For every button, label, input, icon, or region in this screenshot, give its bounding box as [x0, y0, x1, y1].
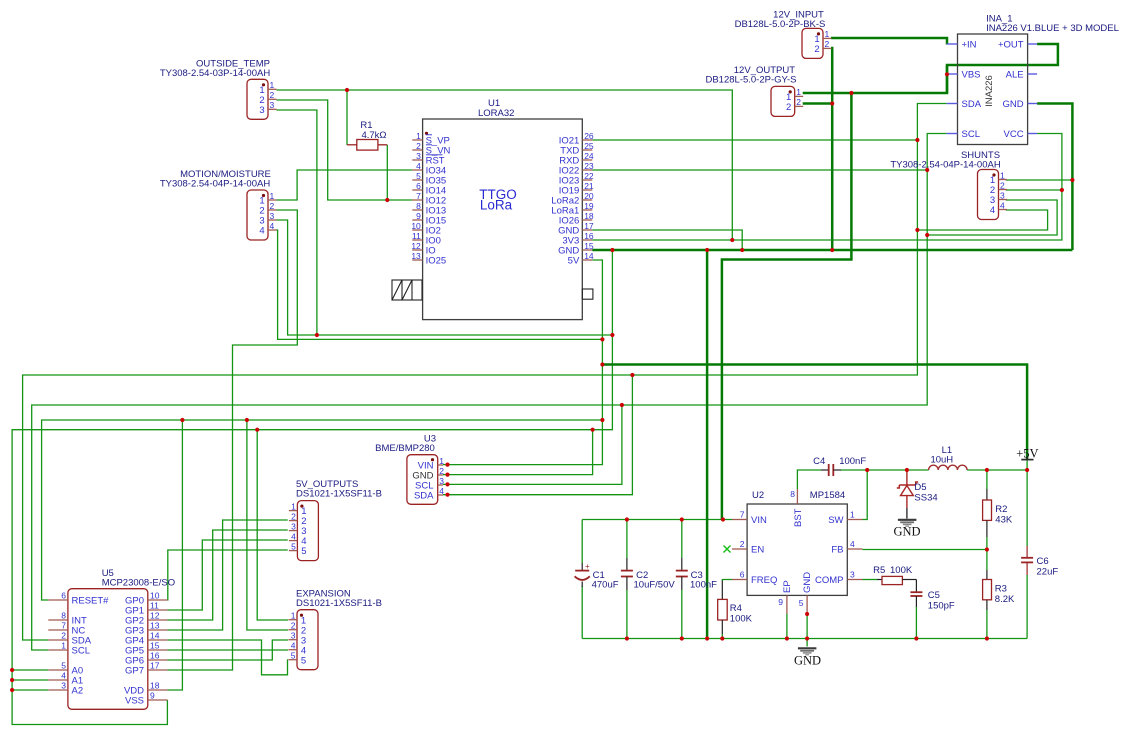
svg-text:VBS: VBS	[962, 70, 981, 81]
svg-text:22: 22	[584, 171, 594, 181]
svg-text:10: 10	[150, 591, 160, 601]
node U3 pin3	[445, 482, 449, 486]
svg-text:5: 5	[416, 171, 421, 181]
svg-text:RESET#: RESET#	[72, 596, 110, 607]
wire COMP to R5	[863, 579, 878, 581]
svg-text:C4: C4	[813, 456, 825, 467]
svg-text:SCL: SCL	[72, 646, 90, 657]
svg-text:BME/BMP280: BME/BMP280	[375, 443, 435, 454]
svg-text:3: 3	[270, 211, 275, 221]
wire U5 GP4 to EXPANSION pin5	[168, 640, 289, 675]
svg-text:C6: C6	[1037, 556, 1049, 567]
svg-text:GND: GND	[794, 654, 821, 668]
capacitor C5 150pF	[910, 580, 955, 612]
svg-text:5: 5	[291, 541, 296, 551]
node U3 pin1	[445, 463, 449, 467]
node H7-V5	[591, 428, 595, 432]
svg-text:1: 1	[1000, 170, 1005, 180]
svg-text:VSS: VSS	[125, 696, 144, 707]
svg-text:10uF/50V: 10uF/50V	[634, 580, 676, 591]
wire SCL net INA to U5 SCL	[32, 134, 947, 651]
svg-text:2: 2	[796, 97, 801, 107]
capacitor C4 100nF	[813, 456, 866, 476]
svg-text:FB: FB	[831, 545, 843, 556]
node H6-V1	[600, 418, 604, 422]
svg-text:2: 2	[291, 621, 296, 631]
wire GND down to rail	[706, 250, 709, 639]
wire R2 bottom lead	[986, 537, 988, 550]
svg-text:5: 5	[799, 598, 804, 608]
node OT1-R1	[345, 88, 349, 92]
wire 12V_INPUT pin1 to INA +IN	[831, 38, 947, 45]
svg-text:470uF: 470uF	[592, 580, 619, 591]
node C2-VIN	[625, 517, 629, 521]
wire L1 to 5V node	[967, 469, 1027, 471]
wire SDA net INA to U5 SDA	[23, 104, 947, 641]
node EXP2-H6	[245, 418, 249, 422]
wire C5 bottom to rail	[915, 607, 917, 639]
svg-text:5: 5	[291, 651, 296, 661]
node GND17-row	[740, 248, 744, 252]
svg-text:19: 19	[584, 201, 594, 211]
wire OUTSIDE_TEMP pin1 to 3V3 net	[277, 90, 733, 240]
svg-text:22uF: 22uF	[1037, 567, 1059, 578]
wire INA GND down	[1037, 104, 1072, 251]
node 5V-L1	[1025, 468, 1029, 472]
svg-text:3: 3	[291, 631, 296, 641]
wire SW node to L1	[867, 469, 928, 471]
svg-text:3: 3	[61, 681, 66, 691]
svg-text:2: 2	[416, 141, 421, 151]
wire GND net U1 pin15 down left to U5 A0-A2 VSS	[12, 250, 612, 725]
wire EXPANSION pin2 to 5V net	[247, 420, 288, 630]
resistor R1 4.7k	[347, 120, 387, 150]
svg-text:2: 2	[61, 631, 66, 641]
svg-text:2: 2	[439, 466, 444, 476]
svg-text:4: 4	[291, 641, 296, 651]
wire R1 top branch	[346, 90, 348, 145]
wire U1 IO22 to SCL net	[592, 169, 927, 171]
svg-text:SCL: SCL	[962, 129, 980, 140]
svg-text:14: 14	[150, 631, 160, 641]
svg-text:18: 18	[584, 211, 594, 221]
wire SHUNTS pin4 to SDA	[917, 210, 1047, 230]
wire C2 top lead	[626, 520, 628, 559]
svg-text:4: 4	[291, 531, 296, 541]
svg-text:GND: GND	[802, 572, 813, 593]
svg-text:6: 6	[740, 570, 745, 580]
svg-text:1: 1	[825, 29, 830, 39]
wire 3V3 U1 pin16 to INA VCC	[592, 134, 1062, 241]
svg-text:12: 12	[411, 241, 421, 251]
svg-text:1: 1	[291, 611, 296, 621]
svg-text:GP7: GP7	[125, 666, 144, 677]
svg-text:FREQ: FREQ	[751, 575, 777, 586]
wire BST to C4	[797, 470, 821, 489]
svg-text:R5: R5	[873, 565, 885, 576]
node VIN branch	[849, 91, 853, 95]
node IO22-SCL	[925, 168, 929, 172]
wire R4 bottom to rail	[721, 634, 723, 639]
svg-text:1: 1	[796, 87, 801, 97]
svg-text:DS1021-1X5SF11-B: DS1021-1X5SF11-B	[296, 598, 382, 609]
svg-text:15: 15	[150, 641, 160, 651]
svg-text:COMP: COMP	[815, 575, 844, 586]
node D5-L1	[905, 468, 909, 472]
wire GND rail	[582, 638, 1027, 640]
resistor R3 8.2K	[983, 570, 1015, 610]
svg-text:15: 15	[584, 241, 594, 251]
svg-text:3: 3	[259, 105, 264, 116]
wire U5 GP0 to 5V_OUTPUTS pin5	[168, 550, 288, 600]
wire C6 top from +5V	[1026, 461, 1028, 547]
wire U5 A0	[12, 669, 48, 671]
node H2-V1	[600, 337, 604, 341]
svg-text:17: 17	[150, 661, 160, 671]
wire C2 bottom lead	[626, 590, 628, 639]
svg-text:11: 11	[150, 601, 159, 611]
svg-text:4: 4	[850, 539, 855, 549]
svg-text:7: 7	[416, 191, 421, 201]
node C3-VIN	[680, 517, 684, 521]
svg-text:IO25: IO25	[426, 256, 447, 267]
svg-text:6: 6	[61, 591, 66, 601]
wire C3 bottom lead	[681, 590, 683, 639]
svg-text:TY308-2.54-04P-14-00AH: TY308-2.54-04P-14-00AH	[890, 160, 1001, 171]
node SHUNTS2-VCC	[1060, 188, 1064, 192]
svg-text:21: 21	[584, 181, 594, 191]
svg-text:9: 9	[150, 691, 155, 701]
svg-text:12: 12	[150, 611, 160, 621]
svg-text:100K: 100K	[890, 565, 913, 576]
resistor R4 100K	[718, 581, 753, 635]
svg-text:100K: 100K	[730, 614, 753, 625]
node OT1-3V3	[730, 238, 734, 242]
wire SCL branch to U3 SCL	[443, 405, 622, 484]
svg-text:1: 1	[850, 510, 855, 520]
wire MOTION pin1 to U1 IO34	[277, 170, 413, 200]
svg-text:DS1021-1X5SF11-B: DS1021-1X5SF11-B	[296, 489, 382, 500]
svg-text:+: +	[585, 562, 590, 571]
svg-text:1: 1	[61, 641, 66, 651]
svg-text:1: 1	[291, 501, 296, 511]
svg-text:2: 2	[270, 90, 275, 100]
wire MOTION pin3 to GND H1	[277, 220, 613, 335]
IC U2 MP1584	[732, 489, 863, 614]
node C2-rail	[625, 636, 629, 640]
svg-text:13: 13	[150, 621, 160, 631]
svg-text:7: 7	[61, 621, 66, 631]
svg-text:5: 5	[61, 661, 66, 671]
wire U2 GND pin to ground	[806, 614, 808, 647]
node A2	[10, 688, 14, 692]
connector EXPANSION DS1021-1X5SF11-B	[289, 610, 319, 670]
svg-text:ALE: ALE	[1006, 70, 1024, 81]
node SHUNTS1-GND	[1070, 178, 1074, 182]
svg-text:1: 1	[270, 80, 275, 90]
svg-text:VCC: VCC	[1004, 129, 1024, 140]
svg-text:SDA: SDA	[962, 99, 982, 110]
wire EXPANSION pin1 to GND net	[257, 430, 288, 620]
svg-text:C5: C5	[928, 590, 940, 601]
wire 12V_INPUT pin2 down to GND row	[831, 48, 832, 250]
svg-text:1: 1	[439, 456, 444, 466]
svg-text:+5V: +5V	[1016, 447, 1038, 461]
node GND5-rail	[805, 636, 809, 640]
node GND-V2	[610, 248, 614, 252]
wire 5V run to +5V symbol	[602, 365, 1027, 460]
svg-text:100nF: 100nF	[839, 456, 866, 467]
wire SHUNTS pin1 to GND	[1006, 179, 1073, 181]
wire U5 GP6 to EXPANSION pin3	[168, 640, 289, 660]
svg-text:8: 8	[790, 489, 795, 499]
no-connect X on U2 EN pin	[724, 546, 731, 553]
svg-text:2: 2	[825, 39, 830, 49]
wire MOTION pin2 to U5 GP7	[168, 210, 298, 670]
svg-text:8.2K: 8.2K	[995, 594, 1015, 605]
svg-text:LORA32: LORA32	[478, 108, 514, 119]
svg-text:INA226 V1.BLUE + 3D MODEL: INA226 V1.BLUE + 3D MODEL	[986, 23, 1119, 34]
wire R2 top lead	[986, 470, 988, 489]
svg-text:1: 1	[416, 131, 421, 141]
node SHUNTS3-SCL	[925, 233, 929, 237]
wire U5 VDD to 5V net	[168, 420, 183, 690]
svg-text:4: 4	[990, 205, 995, 216]
wire U5 GP2 to 5V_OUTPUTS pin3	[168, 530, 288, 620]
capacitor C1 470uF	[575, 562, 619, 591]
node R1-IO12	[385, 198, 389, 202]
wire U1 GND pin17	[592, 230, 742, 250]
svg-text:VIN: VIN	[751, 515, 767, 526]
connector 12V_INPUT DB128L-5.0-2P-BK-S	[735, 10, 832, 59]
svg-text:GND: GND	[893, 525, 920, 539]
svg-text:2: 2	[291, 511, 296, 521]
svg-text:SDA: SDA	[414, 491, 434, 502]
wire C4 to SW node	[841, 469, 867, 471]
svg-text:EN: EN	[751, 545, 764, 556]
connector 12V_OUTPUT DB128L-5.0-2P-GY-S	[705, 65, 803, 116]
label SHUNTS title	[890, 150, 1001, 171]
diode D5 SS34 schottky	[897, 470, 938, 519]
wire SW up	[863, 470, 868, 520]
+5V supply symbol	[1016, 447, 1038, 461]
svg-text:6: 6	[416, 181, 421, 191]
IC U5 MCP23008-E/SO	[48, 568, 175, 709]
svg-text:EP: EP	[782, 580, 793, 593]
svg-text:9: 9	[778, 597, 783, 607]
capacitor C3 100nF	[676, 558, 717, 591]
svg-text:2: 2	[740, 539, 745, 549]
svg-text:2: 2	[1000, 180, 1005, 190]
svg-text:TY308-2.54-03P-14-00AH: TY308-2.54-03P-14-00AH	[160, 68, 271, 79]
wire GND row U1 pin15 to INA GND	[592, 249, 1072, 252]
node OT3-H1	[315, 333, 319, 337]
wire R3 top lead	[986, 550, 988, 571]
wire C3 top lead	[681, 520, 683, 559]
wire 5V net U1 pin14 down to U3 VIN	[443, 260, 602, 465]
wire VIN row	[582, 519, 732, 521]
svg-text:9: 9	[416, 211, 421, 221]
node R2-L1	[985, 468, 989, 472]
svg-text:MCP23008-E/SO: MCP23008-E/SO	[102, 578, 175, 589]
svg-text:10: 10	[411, 221, 421, 231]
wire FREQ to R4	[722, 580, 732, 581]
svg-text:11: 11	[412, 231, 421, 241]
ground symbol under U2	[794, 648, 821, 667]
svg-text:D5: D5	[914, 482, 926, 493]
svg-text:3: 3	[270, 100, 275, 110]
svg-text:43K: 43K	[995, 515, 1013, 526]
wire U5 GP5 to EXPANSION pin4	[168, 649, 289, 651]
svg-text:TY308-2.54-04P-14-00AH: TY308-2.54-04P-14-00AH	[160, 179, 271, 190]
svg-text:3: 3	[416, 151, 421, 161]
wire C1 bottom lead	[581, 586, 583, 639]
wire GND branch to U3 GND	[443, 430, 593, 475]
svg-text:LoRa: LoRa	[480, 198, 513, 213]
node VINdrop	[721, 517, 725, 521]
svg-text:10uH: 10uH	[930, 455, 953, 466]
svg-text:DB128L-5.0-2P-BK-S: DB128L-5.0-2P-BK-S	[735, 19, 826, 30]
svg-text:2: 2	[270, 201, 275, 211]
node GND5-pin	[805, 612, 809, 616]
svg-text:R2: R2	[995, 504, 1007, 515]
svg-text:17: 17	[584, 221, 594, 231]
svg-text:4: 4	[1000, 200, 1005, 210]
node C5-rail	[914, 636, 918, 640]
svg-text:16: 16	[584, 231, 594, 241]
wire MOTION pin4 to 5V H2	[277, 230, 603, 339]
wire SDA branch to U3 SDA	[443, 375, 632, 495]
label 5V_OUTPUTS title	[296, 479, 382, 500]
wire OUTSIDE_TEMP pin2 to U1 IO12	[277, 100, 413, 200]
svg-text:5: 5	[301, 546, 306, 557]
svg-text:3: 3	[439, 476, 444, 486]
node H1-V2	[610, 333, 614, 337]
node SW-C4-L1	[865, 468, 869, 472]
svg-text:2: 2	[814, 44, 819, 55]
svg-text:7: 7	[740, 510, 745, 520]
svg-text:16: 16	[150, 651, 160, 661]
node C3-rail	[680, 636, 684, 640]
node GND-rail	[705, 636, 709, 640]
node SHUNTS4-SDA	[915, 228, 919, 232]
wire SHUNTS pin2 to VCC	[1006, 189, 1062, 191]
node R3-rail	[985, 636, 989, 640]
IC U1 LORA32	[411, 98, 594, 320]
svg-text:SW: SW	[828, 515, 843, 526]
svg-text:20: 20	[584, 191, 594, 201]
node 5V thick start	[600, 362, 604, 366]
svg-text:4: 4	[439, 486, 444, 496]
node H5-V4	[620, 403, 624, 407]
node 12Vgnd-row	[830, 248, 834, 252]
resistor R5 100K	[873, 565, 916, 585]
node GNDdown-row	[705, 248, 709, 252]
wire FB row	[863, 549, 987, 551]
node IO21-SDA	[915, 138, 919, 142]
wire C1 top lead	[581, 520, 583, 564]
svg-text:+OUT: +OUT	[998, 40, 1024, 51]
svg-text:23: 23	[584, 161, 594, 171]
svg-text:4: 4	[259, 226, 264, 237]
node EXP1-H7	[255, 428, 259, 432]
antenna hatched box of U1	[392, 280, 422, 300]
wire U5 GP3 to 5V_OUTPUTS pin2	[168, 520, 288, 630]
wire U5 A1	[12, 679, 48, 681]
svg-text:8: 8	[416, 201, 421, 211]
svg-text:DB128L-5.0-2P-GY-S: DB128L-5.0-2P-GY-S	[705, 75, 796, 86]
svg-text:26: 26	[584, 131, 594, 141]
svg-text:4: 4	[270, 221, 275, 231]
svg-text:5V: 5V	[568, 256, 580, 267]
svg-text:INA226: INA226	[984, 75, 995, 107]
capacitor C6 22uF	[1021, 546, 1058, 578]
node H4-V3	[630, 373, 634, 377]
svg-text:R3: R3	[995, 584, 1007, 595]
resistor R2 43K	[983, 489, 1013, 537]
connector MOTION/MOISTURE TY308-2.54-04P-14-00AH	[160, 169, 277, 240]
svg-text:3: 3	[850, 570, 855, 580]
node U3 pin4	[445, 493, 449, 497]
capacitor C2 10uF/50V	[621, 558, 675, 591]
node VBS	[945, 72, 949, 76]
node A0	[10, 668, 14, 672]
label EXPANSION title	[296, 589, 382, 610]
wire U5 GP1 to 5V_OUTPUTS pin4	[168, 540, 288, 610]
svg-text:1: 1	[270, 191, 275, 201]
wire R3 bottom to rail	[986, 610, 988, 639]
svg-text:BST: BST	[793, 508, 804, 527]
svg-text:14: 14	[584, 251, 594, 261]
svg-text:150pF: 150pF	[928, 601, 955, 612]
wire VBS stub link	[946, 65, 949, 93]
connector SHUNTS TY308-2.54-04P-14-00AH	[978, 170, 1008, 220]
node A1	[10, 678, 14, 682]
svg-text:U2: U2	[752, 490, 764, 501]
svg-text:GND: GND	[1002, 99, 1023, 110]
svg-text:4: 4	[416, 161, 421, 171]
svg-text:100nF: 100nF	[690, 580, 717, 591]
svg-text:2: 2	[786, 102, 791, 113]
connector 5V_OUTPUTS DS1021-1X5SF11-B	[289, 501, 319, 561]
svg-text:18: 18	[150, 681, 160, 691]
svg-text:A2: A2	[72, 686, 84, 697]
node 12Vout2	[830, 101, 834, 105]
wire R1 bottom branch	[386, 145, 388, 200]
node VDD-H6	[180, 418, 184, 422]
wire C6 bottom to rail	[1026, 575, 1028, 639]
svg-text:3: 3	[291, 521, 296, 531]
IC INA_1 INA226	[947, 14, 1119, 145]
svg-text:8: 8	[61, 611, 66, 621]
svg-text:+IN: +IN	[962, 40, 977, 51]
svg-text:SS34: SS34	[914, 493, 937, 504]
node U3 pin2	[445, 473, 449, 477]
wire U5 A2	[12, 689, 48, 691]
svg-text:R4: R4	[730, 603, 742, 614]
svg-text:MP1584: MP1584	[810, 490, 845, 501]
ground symbol under D5	[893, 520, 920, 539]
svg-text:13: 13	[411, 251, 421, 261]
node EP-rail	[785, 636, 789, 640]
wire 12V supply down to U2 VIN	[722, 93, 852, 520]
wire OUTSIDE_TEMP pin3 to GND net	[277, 110, 317, 335]
tab on U1 right side	[582, 289, 593, 299]
svg-text:25: 25	[584, 141, 594, 151]
wire EP to rail	[786, 614, 788, 639]
svg-text:24: 24	[584, 151, 594, 161]
svg-text:4: 4	[61, 671, 66, 681]
